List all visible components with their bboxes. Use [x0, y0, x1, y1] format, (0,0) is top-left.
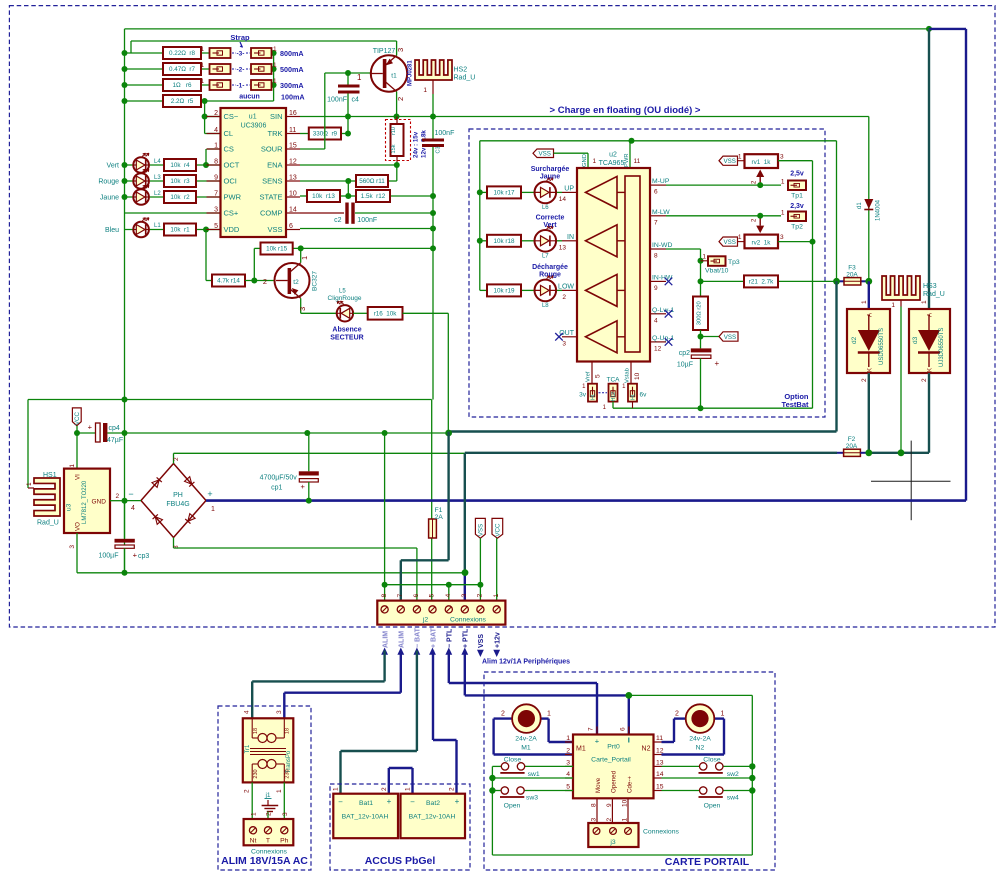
svg-text:3: 3	[780, 154, 784, 161]
svg-text:Bat2: Bat2	[426, 800, 440, 807]
svg-text:24v : 15v: 24v : 15v	[413, 131, 420, 158]
test point Tp2	[788, 212, 806, 222]
Prt0 bottom pins to J3	[596, 798, 598, 823]
svg-text:1: 1	[405, 787, 412, 791]
svg-text:VCC: VCC	[495, 523, 502, 537]
svg-text:+: +	[595, 737, 600, 746]
svg-text:Jaune: Jaune	[100, 195, 119, 202]
svg-text:Tp2: Tp2	[791, 224, 803, 231]
svg-text:sw2: sw2	[727, 771, 739, 778]
svg-text:d2: d2	[851, 336, 858, 344]
u2 right pins	[650, 184, 666, 186]
heatsink HS3	[882, 276, 920, 300]
svg-text:CS−: CS−	[224, 112, 239, 121]
svg-text:1: 1	[702, 254, 706, 261]
svg-text:2,5v: 2,5v	[790, 171, 804, 178]
svg-text:−: −	[128, 489, 133, 499]
svg-text:230: 230	[285, 769, 291, 778]
svg-text:− BAT: − BAT	[415, 627, 422, 648]
wire bridge + output bus	[206, 499, 966, 502]
svg-text:Opened: Opened	[611, 770, 618, 793]
strap jumpers row 300mA	[210, 80, 231, 90]
svg-text:1: 1	[622, 818, 629, 822]
capacitor cp4	[96, 423, 101, 442]
power label VSS (TCA GND)	[533, 149, 554, 158]
capacitor c2 COMP row	[300, 212, 344, 214]
svg-text:Close: Close	[504, 757, 522, 764]
power label VCC J2	[492, 518, 503, 538]
led L6	[535, 182, 557, 204]
svg-text:L7: L7	[542, 253, 549, 259]
svg-text:10: 10	[634, 372, 641, 380]
svg-text:PH: PH	[173, 492, 183, 499]
svg-text:M-LW: M-LW	[652, 209, 670, 216]
svg-text:+: +	[455, 797, 460, 806]
svg-text:F3: F3	[848, 265, 856, 272]
resistor r13	[307, 190, 340, 202]
svg-text:rv2 1k: rv2 1k	[752, 240, 772, 247]
svg-text:Surchargée: Surchargée	[531, 166, 570, 173]
svg-text:TRK: TRK	[268, 129, 283, 138]
svg-text:T: T	[266, 838, 270, 845]
resistor r18	[480, 240, 487, 242]
svg-text:F2: F2	[848, 436, 856, 443]
svg-text:9: 9	[654, 285, 658, 292]
wire teal J2 pin7 path	[447, 432, 449, 561]
svg-text:Vert: Vert	[107, 163, 120, 170]
svg-text:5: 5	[595, 374, 602, 378]
svg-text:2: 2	[449, 787, 456, 791]
svg-text:u1: u1	[249, 114, 257, 121]
wire rv1 to rail	[778, 160, 813, 162]
svg-text:3: 3	[396, 48, 405, 52]
connector J3	[588, 823, 638, 847]
svg-text:1: 1	[891, 302, 895, 309]
switch sw3	[492, 790, 501, 792]
svg-text:1: 1	[26, 482, 33, 486]
svg-text:VSS: VSS	[478, 634, 485, 648]
svg-text:d1: d1	[857, 202, 863, 209]
svg-text:1: 1	[721, 711, 725, 718]
wire J2 pin8 col	[384, 433, 386, 601]
svg-text:Vstab: Vstab	[625, 368, 631, 383]
connector J2	[377, 601, 505, 625]
wire strap column	[273, 53, 275, 101]
svg-text:UJ3D06550TS: UJ3D06550TS	[939, 328, 945, 367]
svg-text:sw4: sw4	[727, 795, 739, 802]
motor N2	[674, 717, 686, 719]
test point Tp1	[788, 181, 806, 191]
resistor r16	[353, 312, 368, 314]
svg-text:TCA965: TCA965	[599, 160, 625, 167]
svg-text:24v-2A: 24v-2A	[689, 736, 711, 743]
svg-text:OUT: OUT	[559, 330, 575, 337]
wire ALIM1 to transformer	[383, 651, 385, 682]
svg-text:N2: N2	[642, 746, 651, 753]
led L3 Rouge	[133, 173, 149, 189]
wire bridge AC bottom to J2 pin6	[174, 547, 417, 549]
svg-text:0.47Ω r7: 0.47Ω r7	[169, 66, 196, 73]
svg-text:10k r15: 10k r15	[266, 246, 288, 253]
fuse F2 20A	[465, 452, 837, 454]
led L5 ClignRouge	[337, 305, 353, 321]
wire J2 pin4 short rail	[385, 584, 481, 586]
svg-text:Close: Close	[703, 757, 721, 764]
fuse F3 20A	[837, 280, 845, 282]
svg-text:FBU4G: FBU4G	[166, 501, 189, 508]
svg-text:10k r2: 10k r2	[170, 194, 190, 201]
svg-text:BAT_12v-10AH: BAT_12v-10AH	[342, 814, 389, 821]
wire strap bottom rail	[612, 402, 614, 409]
svg-text:100nF: 100nF	[435, 130, 455, 137]
wire TRK r9	[300, 133, 309, 135]
svg-text:IN: IN	[567, 234, 574, 241]
svg-text:K: K	[868, 368, 874, 372]
wire SIN row y=117	[300, 116, 869, 118]
svg-text:1: 1	[423, 87, 427, 94]
svg-text:3: 3	[566, 759, 570, 766]
svg-text:Vert: Vert	[543, 222, 557, 229]
svg-text:800mA: 800mA	[280, 49, 304, 58]
svg-text:6v: 6v	[640, 392, 648, 399]
led L7	[535, 230, 557, 252]
svg-text:u2: u2	[609, 152, 617, 159]
svg-text:300Ω r20: 300Ω r20	[697, 301, 703, 325]
ACCUS board dashed box	[330, 784, 470, 870]
battery Bat2	[401, 794, 466, 839]
svg-text:230: 230	[253, 769, 259, 778]
svg-text:CS+: CS+	[224, 209, 239, 218]
svg-text:3: 3	[69, 545, 76, 549]
svg-text:u3: u3	[66, 503, 73, 511]
svg-text:COMP: COMP	[260, 209, 283, 218]
op-amp IC u1 UC3906	[221, 108, 287, 237]
svg-text:1: 1	[547, 711, 551, 718]
svg-text:> Charge en floating (OU diodé: > Charge en floating (OU diodé) >	[550, 105, 701, 116]
wire M-UP row	[666, 184, 781, 186]
svg-text:Rad_U: Rad_U	[454, 75, 476, 82]
svg-text:2: 2	[263, 277, 267, 286]
svg-text:8: 8	[381, 594, 388, 598]
svg-text:5: 5	[566, 784, 570, 791]
wire VCC row y=433	[77, 432, 96, 434]
svg-text:Vbat/10: Vbat/10	[705, 268, 729, 275]
svg-text:3: 3	[591, 818, 598, 822]
svg-text:r10: r10	[391, 127, 397, 135]
svg-text:Tp3: Tp3	[728, 259, 740, 266]
svg-text:Alim 12v/1A Periphériques: Alim 12v/1A Periphériques	[482, 659, 570, 666]
resistor r2	[164, 191, 196, 203]
wire VSS row	[300, 228, 433, 230]
svg-text:SENS: SENS	[262, 177, 282, 186]
led L4 Vert	[133, 157, 149, 173]
svg-text:VSS: VSS	[478, 524, 485, 536]
svg-text:TCA: TCA	[607, 377, 621, 384]
svg-text:j1: j1	[264, 792, 270, 799]
svg-text:2A: 2A	[435, 514, 444, 521]
svg-text:8: 8	[591, 803, 598, 807]
svg-text:K: K	[928, 368, 934, 372]
wire SENS	[300, 180, 356, 182]
switch sw2	[662, 765, 700, 767]
fuse F1 2A	[429, 519, 437, 538]
svg-text:j3: j3	[609, 839, 616, 846]
wire -PTL to Prt0 pin7	[448, 651, 450, 684]
switch sw4	[662, 790, 700, 792]
svg-text:UP: UP	[564, 185, 574, 192]
svg-text:Connexions: Connexions	[251, 849, 287, 856]
svg-text:VI: VI	[75, 474, 82, 480]
regulator u3 LM7812	[76, 433, 78, 469]
svg-text:2.2Ω r5: 2.2Ω r5	[171, 98, 194, 105]
svg-text:4: 4	[566, 771, 570, 778]
svg-text:BAT_12v-10AH: BAT_12v-10AH	[409, 814, 456, 821]
svg-text:+: +	[715, 359, 720, 368]
connector J1	[244, 819, 294, 845]
svg-text:r16 10k: r16 10k	[374, 311, 398, 318]
svg-text:1: 1	[566, 735, 570, 742]
svg-text:L3: L3	[154, 175, 161, 181]
svg-text:4700µF/50v: 4700µF/50v	[260, 475, 298, 482]
svg-text:2: 2	[173, 457, 180, 461]
led L1 Bleu	[133, 222, 149, 238]
u2 bottom pins	[591, 362, 593, 384]
svg-text:2: 2	[381, 787, 388, 791]
svg-text:11: 11	[656, 735, 663, 742]
resistor r20 vertical	[693, 297, 708, 331]
svg-text:9: 9	[606, 803, 613, 807]
svg-text:+12v: +12v	[495, 632, 502, 648]
svg-text:A: A	[928, 313, 934, 317]
resistor r5	[163, 95, 201, 107]
resistor r6	[163, 79, 201, 91]
svg-text:ACCUS PbGel: ACCUS PbGel	[365, 855, 436, 867]
svg-text:3: 3	[298, 307, 307, 311]
svg-text:C3: C3	[436, 146, 442, 153]
svg-text:sw3: sw3	[526, 795, 538, 802]
svg-text:2: 2	[396, 97, 405, 101]
svg-text:H12: H12	[611, 392, 617, 401]
wire M-LW row	[666, 215, 781, 217]
svg-text:ALIM: ALIM	[382, 631, 389, 648]
led L8	[535, 280, 557, 302]
svg-text:7: 7	[588, 727, 595, 731]
svg-text:CARTE PORTAIL: CARTE PORTAIL	[665, 856, 750, 868]
svg-text:12v : 6.8k: 12v : 6.8k	[421, 130, 428, 158]
svg-text:L5: L5	[339, 289, 346, 295]
trimmer rv2	[719, 237, 738, 246]
svg-text:Prt0: Prt0	[607, 744, 620, 751]
resistor r7	[163, 63, 201, 75]
wire row14	[662, 777, 753, 779]
svg-text:18: 18	[253, 728, 259, 734]
wire green right rail portail	[629, 694, 753, 696]
wire t2 to L5	[301, 312, 337, 314]
svg-text:− PTL: − PTL	[447, 628, 454, 648]
svg-text:100mA: 100mA	[281, 93, 305, 102]
svg-text:cp3: cp3	[138, 553, 149, 560]
svg-text:1: 1	[251, 812, 258, 816]
svg-text:47µF: 47µF	[107, 437, 123, 444]
svg-text:10k r17: 10k r17	[493, 190, 515, 197]
svg-text:14: 14	[559, 196, 567, 203]
svg-text:1: 1	[211, 506, 215, 513]
svg-text:ALIM 18V/15A AC: ALIM 18V/15A AC	[221, 855, 308, 867]
svg-text:2: 2	[675, 711, 679, 718]
transistor t1 TIP127	[371, 55, 407, 91]
svg-text:Rad_U: Rad_U	[923, 291, 945, 298]
crosshair graphic lines	[871, 480, 951, 482]
svg-text:L2: L2	[154, 191, 161, 197]
resistor r12	[356, 190, 390, 202]
svg-text:Vref: Vref	[586, 371, 592, 382]
bridge rectifier PH FBU4G	[141, 464, 206, 538]
svg-text:t1: t1	[391, 73, 397, 80]
svg-text:VSS: VSS	[267, 225, 282, 234]
svg-text:4: 4	[244, 710, 251, 714]
svg-text:100nF: 100nF	[327, 97, 347, 104]
svg-text:1: 1	[273, 62, 277, 69]
resistor r14	[212, 275, 245, 287]
svg-text:Ph: Ph	[280, 838, 289, 845]
svg-text:14: 14	[656, 771, 664, 778]
svg-text:OCT: OCT	[224, 161, 240, 170]
wire STATE r13 r12	[300, 195, 307, 197]
power label VSS (r20)	[698, 334, 704, 340]
svg-text:d3: d3	[912, 336, 919, 344]
svg-text:MPJ0281: MPJ0281	[408, 60, 414, 86]
resistor r9	[309, 128, 341, 140]
svg-text:1: 1	[200, 62, 204, 69]
svg-text:1: 1	[781, 179, 785, 186]
svg-text:SOUR: SOUR	[261, 145, 283, 154]
svg-text:2: 2	[244, 789, 251, 793]
svg-text:GND: GND	[582, 154, 588, 167]
wire top right corner	[926, 26, 932, 32]
svg-text:Carte_Portail: Carte_Portail	[591, 757, 631, 764]
svg-text:18: 18	[285, 728, 291, 734]
svg-text:10k r1: 10k r1	[170, 227, 190, 234]
svg-text:t2: t2	[293, 279, 299, 286]
svg-text:rv1 1k: rv1 1k	[752, 159, 772, 166]
svg-text:-1-: -1-	[237, 83, 245, 90]
IC Prt0 Carte_Portail	[565, 741, 573, 743]
svg-text:L6: L6	[542, 205, 549, 211]
svg-text:2: 2	[266, 812, 273, 816]
bottom rail y=572.8	[77, 572, 466, 574]
svg-text:Rouge: Rouge	[539, 271, 561, 278]
svg-text:VCC: VCC	[74, 412, 81, 426]
svg-text:LOW: LOW	[558, 283, 574, 290]
capacitor C3	[432, 117, 434, 139]
svg-text:1: 1	[493, 594, 500, 598]
svg-text:STATE: STATE	[259, 193, 282, 202]
wire VSS net y=399.5	[28, 399, 432, 401]
svg-text:1Ω r6: 1Ω r6	[172, 82, 192, 89]
svg-text:1: 1	[276, 789, 283, 793]
wire bridge AC top	[174, 452, 465, 454]
svg-text:c2: c2	[334, 217, 342, 224]
svg-text:Strap: Strap	[230, 33, 250, 42]
svg-text:1: 1	[738, 234, 742, 241]
svg-text:10k r4: 10k r4	[170, 162, 190, 169]
svg-text:300mA: 300mA	[280, 81, 304, 90]
strap jumpers row 500mA	[210, 64, 231, 74]
svg-text:L1: L1	[154, 223, 161, 229]
svg-text:3v: 3v	[579, 392, 587, 399]
svg-text:15k: 15k	[391, 144, 397, 153]
wire SOUR to base	[300, 148, 325, 150]
svg-text:2,3v: 2,3v	[790, 203, 804, 210]
svg-text:10k r3: 10k r3	[170, 178, 190, 185]
svg-text:8: 8	[654, 253, 658, 260]
svg-text:3: 3	[562, 340, 566, 347]
svg-text:Nt: Nt	[250, 838, 257, 845]
svg-text:1: 1	[300, 256, 309, 260]
wire VCC left rail x=124.5	[124, 29, 126, 573]
ALIM board dashed box	[218, 706, 311, 870]
power label VSS J2	[475, 518, 485, 538]
battery Bat1	[333, 794, 398, 839]
svg-text:+: +	[207, 489, 212, 499]
svg-text:HS1: HS1	[43, 472, 57, 479]
svg-text:3: 3	[461, 594, 468, 598]
u2 left pins	[562, 191, 577, 193]
test point Tp3	[701, 260, 709, 262]
PORTAIL board dashed box	[484, 672, 775, 870]
wire resistor rows	[125, 52, 210, 54]
svg-text:2: 2	[477, 594, 484, 598]
wire Tr1 to J1	[251, 782, 253, 819]
svg-text:2: 2	[116, 493, 120, 500]
svg-text:ENA: ENA	[267, 161, 282, 170]
wire PWR rail y=140.8	[480, 140, 837, 142]
svg-text:Rouge: Rouge	[98, 179, 119, 186]
wire +PTL to Prt0 pin6	[464, 651, 466, 696]
svg-text:560Ω r11: 560Ω r11	[359, 178, 385, 185]
svg-text:VO: VO	[75, 522, 82, 531]
svg-text:+ BAT: + BAT	[430, 627, 437, 648]
svg-text:SECTEUR: SECTEUR	[330, 335, 363, 342]
transistor t2 BC327	[275, 263, 310, 298]
wire -BAT to Bat1	[416, 651, 418, 752]
trimmer rv1	[719, 156, 738, 165]
svg-text:SIN: SIN	[270, 112, 283, 121]
svg-text:IN-WD: IN-WD	[652, 242, 672, 249]
svg-text:3: 3	[282, 812, 289, 816]
svg-text:Cde-+: Cde-+	[627, 776, 634, 793]
svg-text:2: 2	[562, 294, 566, 301]
svg-text:1: 1	[781, 210, 785, 217]
svg-text:aucun: aucun	[239, 94, 260, 101]
svg-text:TIP127: TIP127	[373, 48, 396, 55]
svg-text:LM7812_TO220: LM7812_TO220	[82, 480, 88, 524]
svg-text:10k r19: 10k r19	[493, 288, 515, 295]
capacitor c4	[347, 73, 349, 85]
svg-text:1: 1	[69, 464, 76, 468]
wire top rail y=28.9	[125, 28, 930, 30]
wire IN-WD to Tp3	[666, 248, 701, 250]
svg-text:1: 1	[273, 78, 277, 85]
svg-text:20A: 20A	[846, 272, 858, 279]
resistor r10 with option box	[386, 120, 411, 161]
svg-text:100µF: 100µF	[99, 553, 119, 560]
heatsink HS1	[34, 478, 60, 516]
svg-text:r21 2.7k: r21 2.7k	[749, 279, 774, 286]
svg-text:12: 12	[656, 748, 664, 755]
svg-text:15: 15	[656, 784, 664, 791]
svg-text:1: 1	[200, 46, 204, 53]
